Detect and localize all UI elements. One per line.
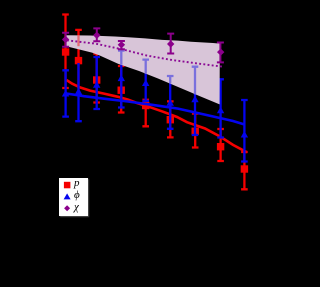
muted in-band segment of p error bar 2: [77, 36, 79, 47]
phi bar 6: [167, 76, 174, 129]
phi bar 3: [93, 57, 100, 109]
p bar 9: [241, 152, 248, 189]
legend marker diamond: [64, 205, 70, 211]
phi bar 7: [192, 67, 199, 135]
legend marker square: [64, 182, 71, 189]
legend label chi: [74, 202, 79, 213]
confidence band (chi fit, opaque over bars): [66, 35, 220, 104]
red error bars (p series): [62, 15, 248, 190]
p bar 6: [167, 101, 174, 137]
chi bar 3: [118, 41, 125, 49]
phi bar 5 in-band: [142, 60, 149, 74]
phi bar 5: [142, 60, 149, 102]
phi bar 1: [62, 70, 69, 116]
legend marker triangle: [64, 193, 71, 199]
phi bar 4 in-band: [118, 51, 125, 65]
legend label phi: [74, 190, 80, 201]
chi bar 2: [93, 28, 100, 41]
p bar 2: [75, 30, 82, 89]
phi bar 4: [118, 51, 125, 108]
legend label p: [74, 178, 80, 189]
purple error bars (chi): [62, 28, 224, 62]
phi bar 7 in-band: [192, 67, 199, 95]
muted in-band segments of phi error bars: [118, 51, 198, 95]
blue fit line (phi): [66, 93, 244, 124]
p bar 1: [62, 15, 69, 89]
purple dotted fit line (chi): [67, 40, 222, 66]
p bar 7: [192, 114, 199, 148]
p bar 8: [217, 129, 224, 161]
p bar 5: [142, 100, 149, 127]
p bar 3: [93, 54, 100, 103]
chi bar 4: [167, 34, 174, 54]
red squares (p markers): [62, 48, 248, 172]
blue error bars (phi series): [62, 51, 247, 162]
phi bar 6 in-band: [167, 76, 174, 84]
chi bar 5: [217, 43, 224, 63]
phi bar 2: [75, 63, 82, 121]
legend box: [59, 178, 88, 217]
red fit curve (p): [67, 80, 248, 152]
phi bar 8: [217, 79, 224, 137]
purple diamonds (chi markers): [62, 32, 225, 56]
p bar 4: [118, 66, 125, 113]
phi bar 9: [241, 100, 248, 162]
blue triangles (phi markers): [62, 74, 248, 137]
chi bar 1: [62, 33, 69, 47]
